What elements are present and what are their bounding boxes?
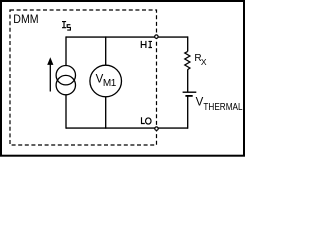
- resistor RX (zigzag): [185, 51, 190, 69]
- outer frame: [1, 1, 244, 156]
- wire voltmeter branch upper: [105, 36, 107, 65]
- wire right branch middle segment: [187, 69, 189, 92]
- voltmeter VM1: [90, 65, 122, 97]
- wire bottom (LO rail): [66, 127, 188, 129]
- battery VTHERMAL long plate: [183, 91, 197, 93]
- label IS: [62, 22, 70, 31]
- current source IS (two overlapping circles): [56, 66, 75, 95]
- svg-text:M1: M1: [103, 78, 117, 89]
- svg-text:V: V: [196, 97, 204, 109]
- wire top (HI rail): [66, 36, 188, 38]
- wire left branch lower: [65, 95, 67, 129]
- label HI: [141, 41, 152, 48]
- current direction arrow: [47, 57, 53, 91]
- DMM dashed enclosure: [10, 10, 157, 145]
- LO node: [155, 127, 158, 130]
- wire voltmeter branch lower: [105, 97, 107, 129]
- svg-text:X: X: [201, 57, 207, 67]
- battery VTHERMAL short plate: [185, 95, 192, 97]
- HI node: [155, 35, 158, 38]
- svg-text:THERMAL: THERMAL: [203, 102, 243, 113]
- wire right branch top segment: [187, 36, 189, 51]
- wire right branch bottom segment: [187, 96, 189, 129]
- svg-text:DMM: DMM: [13, 12, 38, 26]
- wire left branch upper: [65, 36, 67, 65]
- label LO: [142, 117, 152, 124]
